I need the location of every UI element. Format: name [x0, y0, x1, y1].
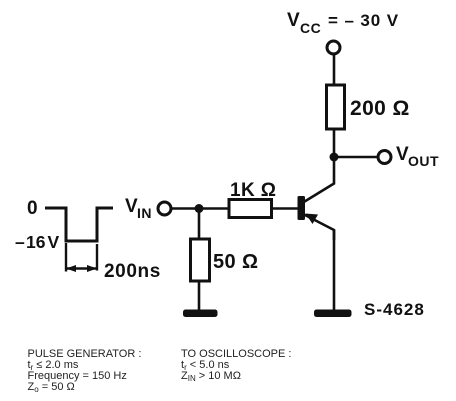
- svg-text:IN: IN: [137, 205, 152, 221]
- terminal VOUT: [378, 151, 391, 164]
- terminal VIN: [158, 202, 171, 215]
- svg-text:OUT: OUT: [408, 153, 439, 169]
- resistor R3 50 ohm: [191, 239, 210, 281]
- wire VIN node to R2: [199, 207, 229, 210]
- resistor R2 1K ohm: [229, 200, 272, 218]
- node IN junction dot: [195, 204, 204, 213]
- transistor Q1 emitter with arrow (PNP): [304, 215, 334, 241]
- svg-text:1K Ω: 1K Ω: [230, 180, 276, 201]
- terminal VCC: [327, 41, 340, 54]
- svg-text:200ns: 200ns: [104, 261, 161, 282]
- ground (emitter): [314, 310, 352, 318]
- node OUT junction dot: [330, 153, 339, 162]
- ground (R3): [183, 310, 218, 318]
- note PULSE GENERATOR block: [28, 348, 142, 394]
- wire VCC terminal to resistor R1: [333, 55, 336, 86]
- wire VIN terminal to node IN: [172, 207, 200, 210]
- svg-text:50 Ω: 50 Ω: [213, 251, 258, 273]
- wire node OUT to VOUT terminal: [334, 156, 378, 159]
- wire emitter to ground: [333, 230, 336, 310]
- wire base to R2: [271, 207, 298, 210]
- wire node OUT to transistor collector: [303, 157, 334, 203]
- wire node IN to R3: [198, 209, 201, 240]
- svg-text:–16V: –16V: [15, 232, 60, 252]
- svg-text:CC: CC: [300, 20, 321, 36]
- svg-text:200 Ω: 200 Ω: [350, 97, 410, 120]
- svg-text:= – 30 V: = – 30 V: [328, 11, 399, 30]
- label VIN: [125, 196, 152, 221]
- net VCC label "VCC = -30 V": [287, 10, 399, 36]
- wire R1 to node OUT: [333, 129, 336, 158]
- svg-text:V: V: [287, 10, 300, 31]
- svg-text:S-4628: S-4628: [364, 300, 425, 319]
- dimension extension line left: [65, 243, 67, 272]
- transistor Q1 PNP base bar: [298, 196, 306, 220]
- resistor R1 200 ohm: [327, 85, 345, 129]
- wire R3 to ground: [198, 281, 201, 310]
- label VOUT: [396, 144, 439, 169]
- pulse waveform trace: [45, 208, 113, 241]
- dimension extension line right: [96, 244, 98, 271]
- dimension double arrow: [67, 267, 96, 269]
- note TO OSCILLOSCOPE block: [181, 348, 291, 383]
- svg-text:0: 0: [27, 198, 38, 219]
